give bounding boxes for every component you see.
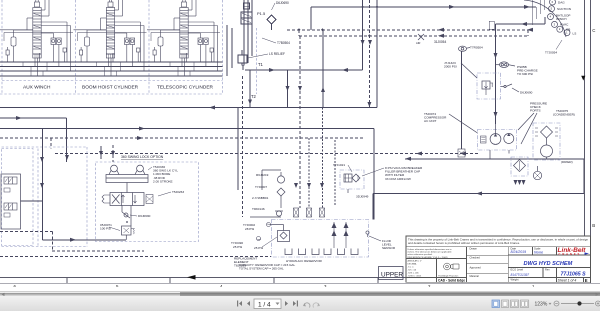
zone ticks xyxy=(66,277,68,283)
svg-text:3: 3 xyxy=(554,22,556,26)
fluid level sensor xyxy=(366,231,381,241)
svg-text:Unless otherwise specified dim: Unless otherwise specified dimensions ar… xyxy=(408,248,453,251)
dashed box lower-left xyxy=(2,147,88,247)
svg-text:AC UNIT: AC UNIT xyxy=(424,119,436,123)
pump outlet lines xyxy=(489,150,491,159)
svg-text:None: None xyxy=(534,250,543,254)
wire lower bus xyxy=(0,128,374,130)
solenoid valve LV2 xyxy=(4,203,17,210)
wire out of box xyxy=(43,239,127,241)
port circle 1 xyxy=(550,0,556,5)
svg-text:2: 2 xyxy=(428,284,431,287)
riser bundle to ports xyxy=(535,7,537,19)
svg-text:AUX WINCH: AUX WINCH xyxy=(23,85,51,91)
bottom toolbar xyxy=(0,296,600,311)
wire bus LS xyxy=(0,70,223,72)
page display mode icons xyxy=(492,300,529,308)
svg-text:Drawn: Drawn xyxy=(470,247,478,251)
wire drop E xyxy=(334,140,336,205)
legal text xyxy=(408,238,589,245)
svg-text:TELESCOPIC CYLINDER: TELESCOPIC CYLINDER xyxy=(157,85,214,91)
svg-text:CAD - Solid Edge: CAD - Solid Edge xyxy=(438,278,465,282)
svg-text:2: 2 xyxy=(559,27,561,31)
wire drop A xyxy=(287,70,289,108)
port circle 3 xyxy=(548,14,554,20)
svg-text:28 PSI: 28 PSI xyxy=(245,227,254,231)
center marker arrow right xyxy=(581,76,585,81)
wire bus P xyxy=(0,66,223,68)
svg-text:T1: T1 xyxy=(258,62,264,67)
svg-text:31J0054: 31J0054 xyxy=(434,40,446,44)
svg-text:(DRIER): (DRIER) xyxy=(561,160,573,164)
border right line 1 xyxy=(584,0,586,236)
wire T1 xyxy=(245,69,363,71)
svg-text:WINCH: WINCH xyxy=(556,17,566,21)
svg-text:AIR: AIR xyxy=(416,41,420,45)
svg-text:5: 5 xyxy=(551,7,553,11)
zoom out icon xyxy=(554,301,559,306)
port circle 6 xyxy=(564,30,570,36)
svg-text:REFERENCE ASME Y14.5 - 2009: REFERENCE ASME Y14.5 - 2009 xyxy=(408,256,449,259)
gauge PS#5B xyxy=(496,62,516,68)
svg-text:Checked: Checked xyxy=(470,256,481,260)
svg-text:D6J0690: D6J0690 xyxy=(276,1,289,5)
svg-text:6: 6 xyxy=(552,0,554,4)
svg-text:DAG: DAG xyxy=(558,1,565,5)
bulkhead arc xyxy=(524,0,566,37)
leader lines for labels xyxy=(248,3,276,58)
svg-text:8/24/2019: 8/24/2019 xyxy=(511,250,527,254)
directional valve V1 aux winch xyxy=(0,0,73,76)
section labels xyxy=(23,85,214,91)
wire drop C xyxy=(308,138,310,208)
svg-text:UPPER: UPPER xyxy=(381,272,403,279)
svg-text:SENSOR: SENSOR xyxy=(382,246,396,250)
svg-text:C: C xyxy=(592,28,595,33)
svg-text:Rev: Rev xyxy=(545,268,550,272)
svg-text:ANGULAR ± 1°: ANGULAR ± 1° xyxy=(408,260,422,263)
svg-text:.XXXX ± .0005: .XXXX ± .0005 xyxy=(408,276,422,278)
svg-text:DWG HYD SCHEM: DWG HYD SCHEM xyxy=(524,261,573,267)
svg-text:unless otherwise specified.: unless otherwise specified. xyxy=(408,253,433,256)
gauge R6J0219 xyxy=(277,176,284,183)
zoom slider xyxy=(561,303,594,305)
main pressure line top xyxy=(311,6,536,8)
wire drop D xyxy=(322,30,324,108)
junction nodes xyxy=(298,28,371,37)
node DA xyxy=(257,223,271,241)
label band bottom line xyxy=(0,93,223,95)
svg-text:25 PSI: 25 PSI xyxy=(254,246,263,250)
svg-text:1: 1 xyxy=(532,284,535,287)
horizontal scrollbar xyxy=(0,291,600,297)
svg-text:T7B0504: T7B0504 xyxy=(277,41,290,45)
svg-text:77J1065 S: 77J1065 S xyxy=(561,272,587,278)
wire manifold drop xyxy=(280,196,282,208)
dashed bottom long xyxy=(52,250,144,252)
svg-text:D6J0690: D6J0690 xyxy=(138,214,151,218)
pilot line LS lower xyxy=(299,35,528,37)
check T7J0007 xyxy=(277,188,285,196)
svg-text:T9K0146: T9K0146 xyxy=(252,207,265,211)
reservoir dashed box xyxy=(272,220,369,258)
wire bus drain xyxy=(0,75,223,77)
border right line 2 xyxy=(590,0,592,283)
directional valve V3 telescopic xyxy=(147,0,220,76)
svg-text:SUCTION: SUCTION xyxy=(557,7,571,11)
svg-text:360 SWING LOCK OPTION: 360 SWING LOCK OPTION xyxy=(121,155,164,159)
orifice X xyxy=(418,34,424,40)
svg-text:Material: Material xyxy=(470,274,480,278)
pump P1 xyxy=(490,134,501,145)
wire from block xyxy=(21,200,43,202)
svg-text:.XX ± .06: .XX ± .06 xyxy=(408,270,417,272)
return loop rect xyxy=(373,193,584,195)
leader T7J0054 xyxy=(556,40,562,50)
compressor pump box xyxy=(478,130,517,151)
swing lock valve SV1 xyxy=(110,193,144,206)
CAD label xyxy=(438,278,465,282)
return filter w/ bypass xyxy=(271,225,290,242)
svg-text:DECIMAL: DECIMAL xyxy=(408,263,418,266)
svg-text:TOTAL SYSTEM CAP = 265 GAL: TOTAL SYSTEM CAP = 265 GAL xyxy=(239,267,284,271)
svg-text:HVAC: HVAC xyxy=(560,23,569,27)
svg-text:.X ± .1: .X ± .1 xyxy=(408,267,415,269)
svg-text:Approved: Approved xyxy=(470,265,482,269)
svg-text:4: 4 xyxy=(550,15,552,19)
relief valve RV1 xyxy=(482,81,490,89)
nav next page xyxy=(285,301,298,307)
condenser core xyxy=(541,126,553,138)
inlet section dashed edge xyxy=(256,28,258,94)
switch D6J0690 xyxy=(501,86,505,88)
inlet compensator xyxy=(241,12,252,24)
svg-text:T7J0007: T7J0007 xyxy=(255,185,267,189)
svg-text:CRANES: CRANES xyxy=(559,252,582,256)
dashed box right edge xyxy=(222,0,224,94)
zoom in icon partial xyxy=(596,301,600,306)
svg-text:T2: T2 xyxy=(251,94,257,99)
pilot line LS upper xyxy=(287,29,528,31)
wire drop F dashed xyxy=(368,0,370,108)
wire drop a xyxy=(249,70,251,108)
svg-text:.XXX ± .005: .XXX ± .005 xyxy=(408,273,420,275)
svg-text:33 CFM AIRFLOW: 33 CFM AIRFLOW xyxy=(385,177,411,181)
wire bus T xyxy=(0,61,223,63)
tank feet xyxy=(285,249,358,255)
check valve diamond xyxy=(267,15,276,24)
dashed box boom hoist xyxy=(75,0,77,94)
svg-text:4: 4 xyxy=(220,284,223,287)
svg-text:LS: LS xyxy=(573,31,577,35)
filter dryer assembly xyxy=(511,157,528,176)
LS relief valve xyxy=(238,55,247,63)
flow arrows on top line xyxy=(361,5,530,45)
filler breather cap xyxy=(344,174,352,182)
fan circle xyxy=(541,145,553,157)
svg-text:(CONDENSER): (CONDENSER) xyxy=(553,113,575,117)
strainers xyxy=(294,208,325,217)
main riser xyxy=(495,24,497,124)
solenoid valve block lower-left xyxy=(1,174,21,229)
svg-text:R6J0219: R6J0219 xyxy=(256,173,269,177)
dashed box telescopic xyxy=(148,0,150,94)
svg-text:123%: 123% xyxy=(535,302,548,308)
port circle 4 xyxy=(552,21,558,27)
swing lock cylinder C1 xyxy=(111,165,118,172)
page number box xyxy=(254,299,281,309)
svg-text:ECO Level: ECO Level xyxy=(511,268,524,272)
solenoid valve LV1 xyxy=(4,177,17,184)
wire cylinder to valve xyxy=(121,206,123,213)
check valve D6J0690 xyxy=(124,213,128,217)
svg-text:6: 6 xyxy=(14,284,17,287)
wire drop B xyxy=(299,36,301,208)
motor M1 xyxy=(504,134,514,144)
pilot dashed bus xyxy=(0,137,365,139)
dashed box aux winch xyxy=(1,0,3,94)
reservoir caption xyxy=(239,259,323,271)
center marker arrow bottom xyxy=(187,76,585,280)
up arrows in tank xyxy=(332,223,349,237)
wire drop b2 xyxy=(237,108,239,191)
sensor T9K0146 xyxy=(276,211,281,216)
svg-text:TO 600 PSI: TO 600 PSI xyxy=(517,72,533,76)
LS pilot dashed lines xyxy=(287,30,528,36)
svg-text:8147TO1397: 8147TO1397 xyxy=(511,273,530,277)
spring + solenoid ends xyxy=(102,195,110,203)
Link-Belt logo xyxy=(558,247,590,256)
pilot dashed long xyxy=(55,153,478,155)
svg-text:T5J0263: T5J0263 xyxy=(172,190,184,194)
svg-text:3DJ0949: 3DJ0949 xyxy=(356,195,369,199)
wire drop b xyxy=(242,76,244,217)
svg-text:PORTS: PORTS xyxy=(530,109,541,113)
wire pressure elbow xyxy=(0,117,67,119)
svg-text:Sheet 1 of 4: Sheet 1 of 4 xyxy=(558,278,577,282)
border bottom line 1 xyxy=(0,276,406,278)
svg-text:Weight: Weight xyxy=(511,277,519,281)
svg-text:LS RELIEF: LS RELIEF xyxy=(269,52,285,56)
prev/next view icons xyxy=(303,303,320,308)
group boundary dashed verticals xyxy=(2,0,257,94)
port circle 2 xyxy=(549,6,555,12)
directional valve V2 boom hoist xyxy=(74,0,147,76)
svg-text:CB: CB xyxy=(566,27,570,31)
condenser box xyxy=(533,123,560,160)
blue fields xyxy=(511,250,587,277)
bus lines under valve bank xyxy=(0,62,223,76)
border bottom line 2 xyxy=(0,282,600,284)
relief valve 05J0071 xyxy=(122,226,132,235)
svg-text:T7J0054: T7J0054 xyxy=(545,51,557,55)
svg-text:5: 5 xyxy=(116,284,119,287)
inlet vertical pipes xyxy=(243,0,245,63)
wire gauge drop xyxy=(461,51,463,149)
dashed box swing lock xyxy=(96,162,199,242)
svg-text:T7R0504: T7R0504 xyxy=(470,46,483,50)
field labels xyxy=(470,247,551,282)
svg-text:25 PSI: 25 PSI xyxy=(233,245,242,249)
svg-text:D6J0690: D6J0690 xyxy=(520,91,533,95)
svg-text:P1.5: P1.5 xyxy=(257,11,266,16)
svg-text:1 / 4: 1 / 4 xyxy=(258,302,271,309)
small valve on dashed line xyxy=(458,149,465,157)
gauge T7R0504 xyxy=(459,46,471,51)
svg-text:BOOM HOIST CYLINDER: BOOM HOIST CYLINDER xyxy=(82,85,139,91)
svg-text:inches. The tolerances below: inches. The tolerances below are applica… xyxy=(408,251,453,254)
projection symbol xyxy=(444,263,459,270)
relief manifold J7J1323 xyxy=(477,73,501,99)
svg-text:E: E xyxy=(585,278,588,283)
svg-text:Third Angle Projection: Third Angle Projection xyxy=(438,274,459,277)
port circle 5 xyxy=(557,26,563,32)
svg-text:2-7/16BB01: 2-7/16BB01 xyxy=(252,196,269,200)
svg-text:and details contained herein i: and details contained herein is prohibit… xyxy=(408,242,520,245)
wire T2 xyxy=(0,107,377,109)
svg-text:This drawing is the property o: This drawing is the property of Link-Bel… xyxy=(408,238,589,241)
tolerance column xyxy=(408,248,460,278)
svg-text:3: 3 xyxy=(324,284,327,287)
condenser feed xyxy=(405,158,584,160)
svg-text:2000 PSI: 2000 PSI xyxy=(444,65,457,69)
svg-text:T7J1021: T7J1021 xyxy=(333,163,345,167)
svg-text:2.00 STROKE: 2.00 STROKE xyxy=(153,179,173,183)
dashed cross lines xyxy=(0,138,478,257)
svg-text:B: B xyxy=(592,223,595,228)
nav first page xyxy=(237,301,250,307)
